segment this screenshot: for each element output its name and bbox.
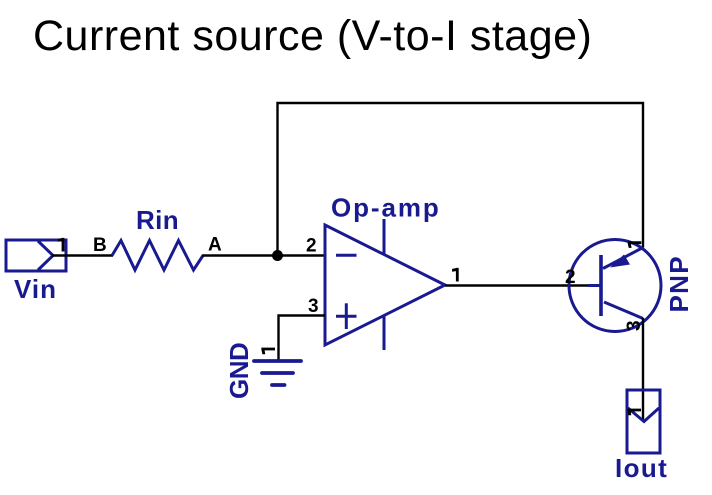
connector Iout symbol [627,390,660,453]
ground symbol GND [254,361,301,385]
pin 1 label GND [261,348,275,355]
svg-text:Iout: Iout [615,453,668,483]
wire collector to Iout [642,318,644,421]
pin 1 label Iout [627,409,641,416]
svg-text:GND: GND [224,343,254,399]
svg-text:PNP: PNP [664,255,694,312]
svg-text:A: A [208,235,222,256]
resistor Rin [112,241,203,271]
pin 1 of Vin [58,238,65,252]
svg-text:Rin: Rin [136,205,179,235]
svg-text:3: 3 [308,296,319,317]
pin 1 label emitter [628,241,642,248]
svg-text:2: 2 [306,236,317,257]
feedback wire node A to emitter [278,103,644,256]
junction node A [272,250,283,261]
connector J1 Vin symbol [6,240,66,271]
wire GND to op-amp pin 3 [279,316,326,361]
svg-text:Op-amp: Op-amp [331,193,441,223]
transistor Q1 PNP [569,240,661,332]
wire op-amp output to transistor base [445,284,588,286]
wire Rin to op-amp inverting input [202,254,325,256]
svg-text:B: B [93,235,107,256]
pin 1 label op-amp output [452,268,459,282]
svg-text:2: 2 [565,267,576,288]
svg-text:Vin: Vin [14,274,57,304]
op-amp U1 [325,219,445,350]
svg-text:Current source (V-to-I stage): Current source (V-to-I stage) [33,12,592,60]
wire Vin to Rin [52,254,113,256]
